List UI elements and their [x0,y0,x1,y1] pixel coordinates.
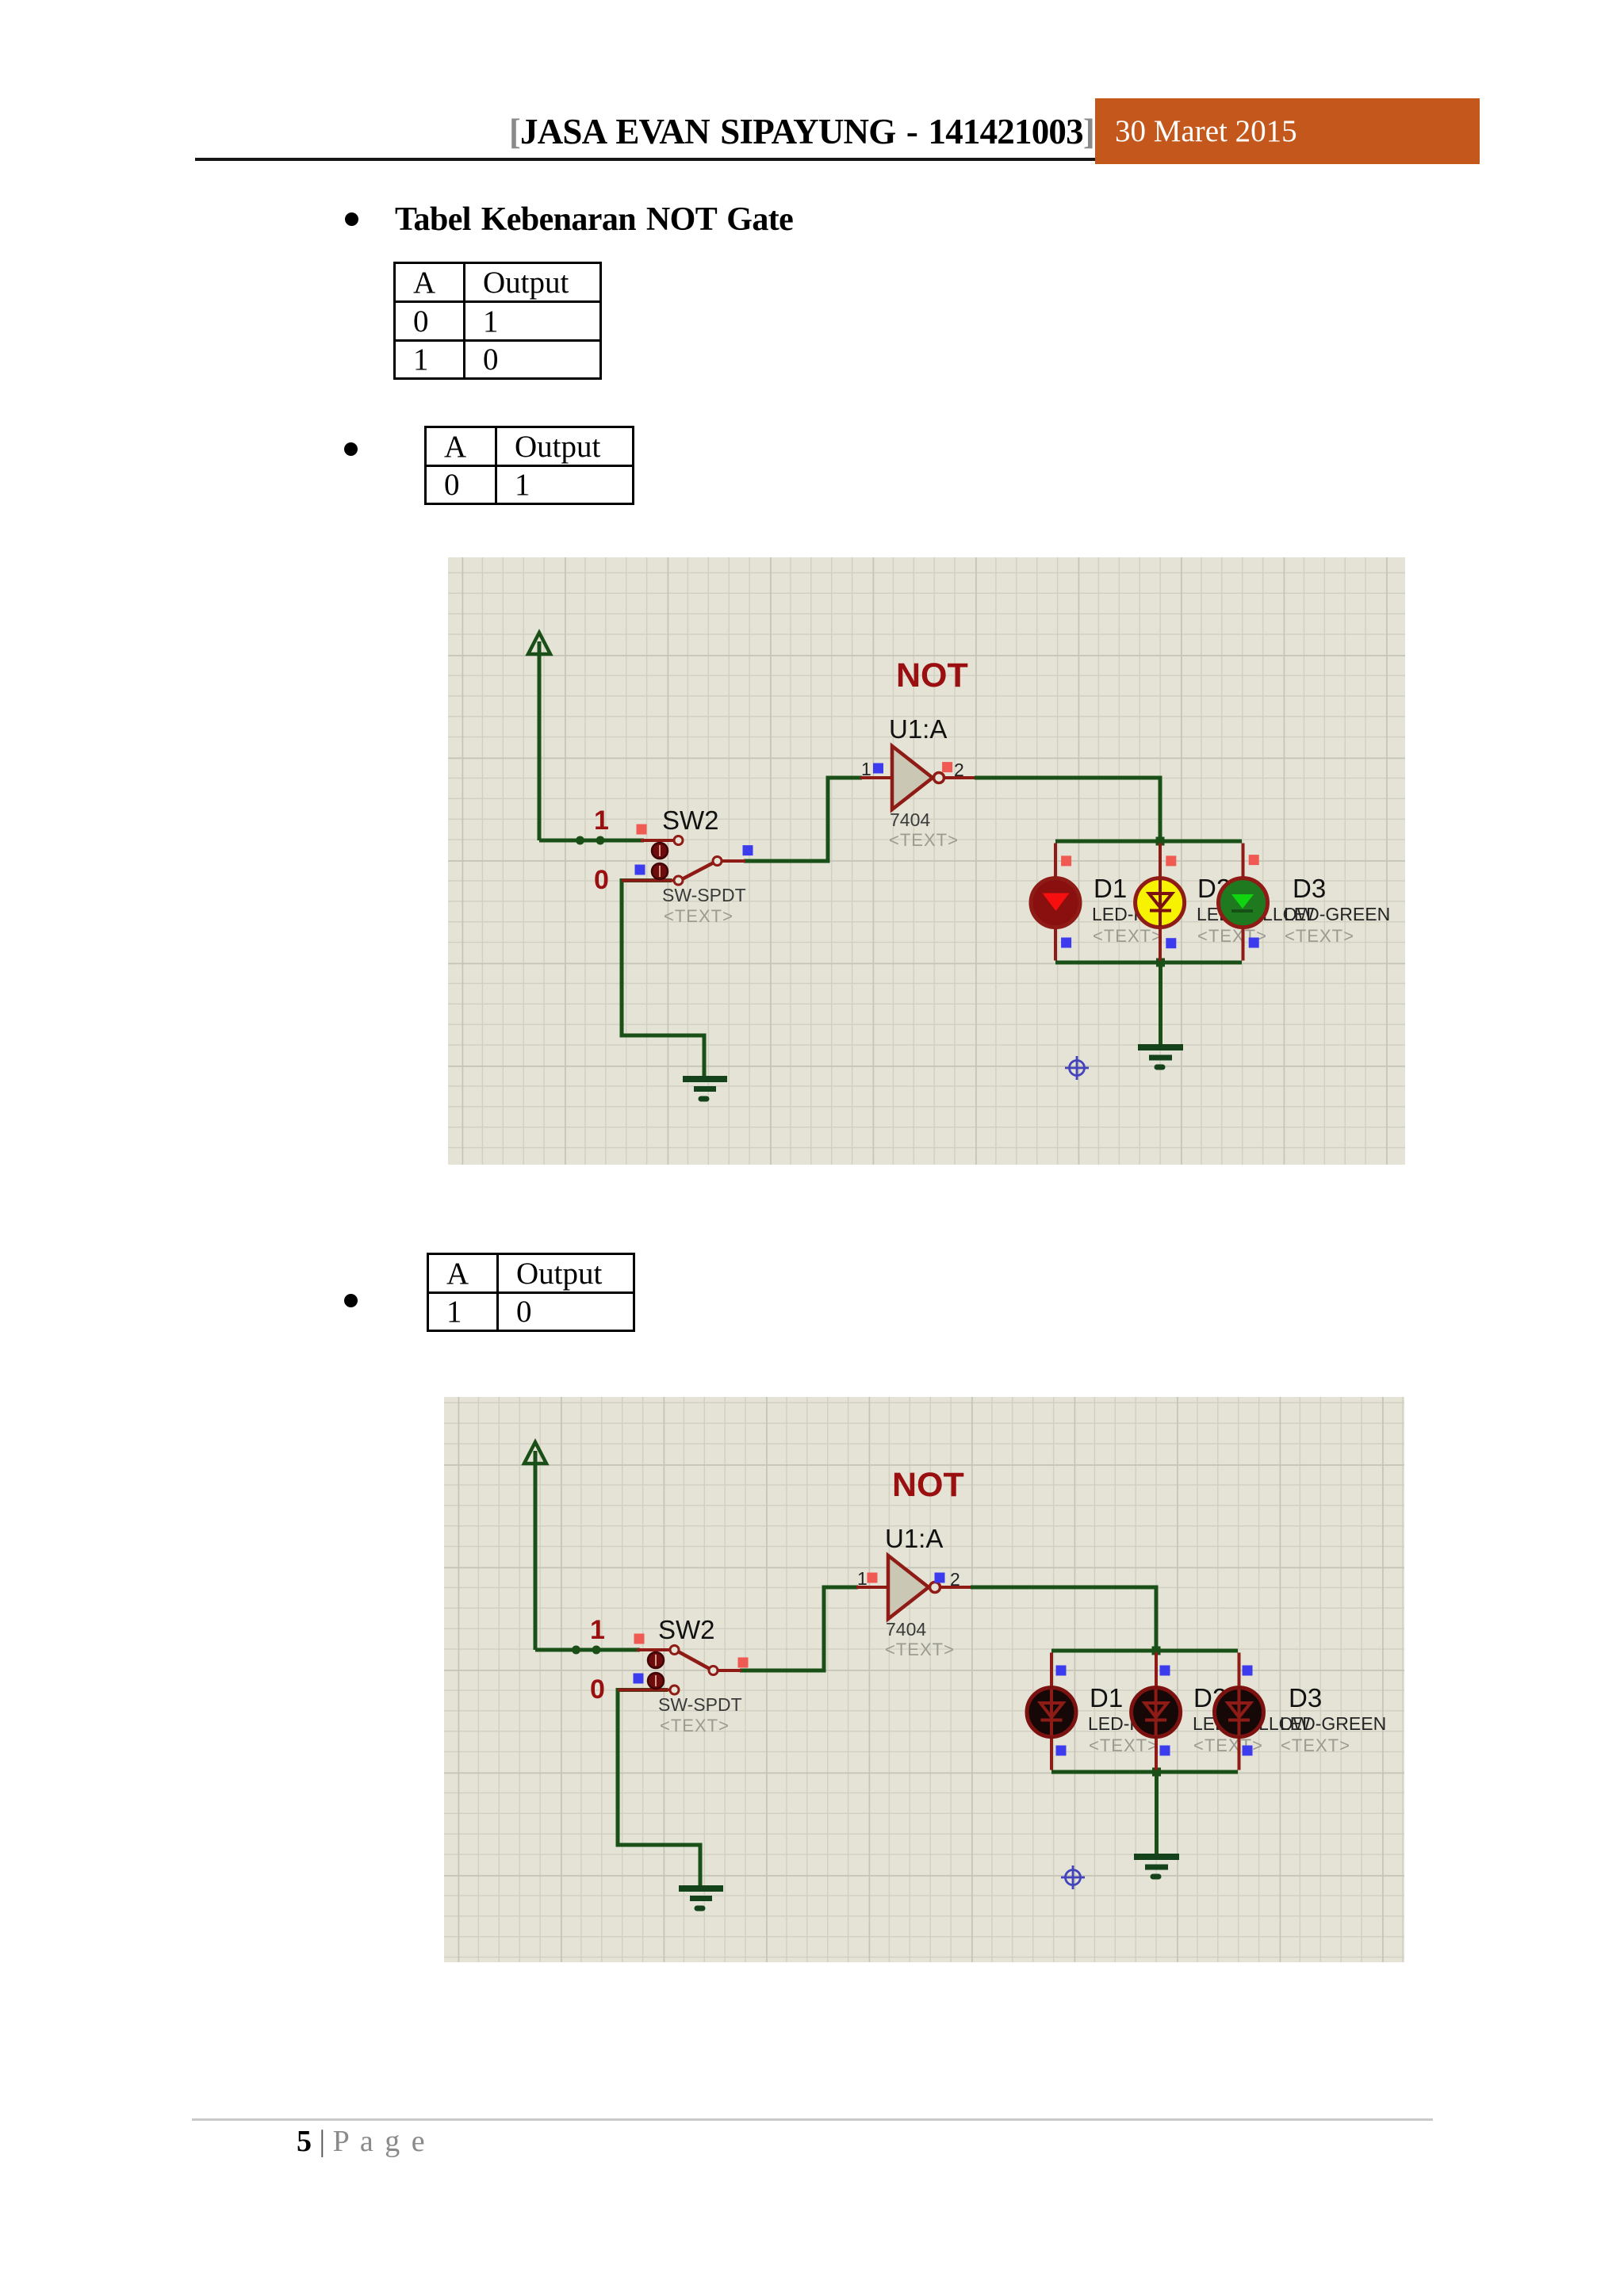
ground (LED branch) [1134,1857,1179,1877]
junction node (cathode bus / ground wire) [1156,959,1165,967]
switch SW2 bottom throw stub [618,1689,669,1692]
switch SW2 common pin [713,857,722,866]
svg-text:U1:A: U1:A [885,1524,943,1553]
handle red above D1 [1061,855,1071,866]
wire switch-to-gate [740,1587,858,1670]
svg-text:NOT: NOT [892,1466,964,1504]
wire LED cathode bus [1055,961,1242,965]
wire cathode-bus-to-ground [1155,1772,1159,1854]
title Tabel Kebenaran NOT Gate [395,201,793,239]
ground (switch branch) [683,1079,727,1099]
wire switch-to-ground [622,881,704,1078]
handle blue near SW2 left [635,865,645,875]
ground (LED branch) [1138,1047,1183,1067]
svg-text:SW2: SW2 [658,1615,715,1644]
wire cathode-bus-to-ground [1159,962,1162,1045]
svg-text:D1: D1 [1094,874,1127,903]
wire power-to-switch horizontal [535,1648,640,1652]
LED D1 (dark / off) [1027,1688,1076,1737]
switch SW2 contact body lower [648,1673,664,1689]
svg-text:<TEXT>: <TEXT> [889,830,959,850]
svg-text:0: 0 [590,1674,605,1705]
svg-text:D3: D3 [1289,1683,1322,1712]
gate U1:A triangle body [892,746,933,809]
junction node (anode bus / gate wire) [1152,1647,1161,1655]
gate U1:A input stub wire [856,1586,888,1589]
handle blue below D3 [1249,938,1259,948]
LED D2 (dark / off) [1132,1688,1181,1737]
svg-text:<TEXT>: <TEXT> [1093,926,1162,946]
handle blue below D2 [1166,938,1176,948]
handle red above D3 [1249,855,1259,865]
svg-text:<TEXT>: <TEXT> [660,1716,730,1735]
handle blue at gate pin 2 [935,1573,945,1583]
truth table 2 [424,426,634,505]
wire LED anode bus [1051,1649,1238,1653]
handle blue at gate pin 1 [873,763,883,774]
gate U1:A output stub wire [940,1586,971,1589]
handle red right of SW2 [738,1658,749,1668]
gate U1:A triangle body [888,1556,929,1619]
gate U1:A inversion bubble [930,1582,940,1593]
wire gate-to-LED-bus [971,1587,1156,1651]
svg-text:2: 2 [950,1569,960,1590]
truth table 3 [427,1253,635,1332]
CIRCUIT 1 (switch at 0, LEDs lit) [448,557,1405,1165]
svg-text:1: 1 [861,759,871,779]
svg-text:D1: D1 [1090,1683,1123,1712]
switch SW2 common pin [709,1667,718,1675]
LED D3 (green, lit) [1219,878,1268,928]
wire switch-to-ground [618,1690,700,1888]
footer rule [192,2118,1433,2121]
svg-text:SW2: SW2 [662,806,719,835]
switch SW2 bottom throw stub [622,879,673,882]
LED D1 (red, lit) [1031,878,1080,928]
gate U1:A input stub wire [860,776,892,779]
origin crosshair marker [1065,1056,1089,1080]
switch SW2 arm (up position) [678,1651,710,1669]
svg-text:2: 2 [954,760,964,780]
svg-text:SW-SPDT: SW-SPDT [662,885,746,905]
footer page number [297,2124,427,2159]
LED D2 (yellow, lit) [1136,878,1185,928]
svg-text:NOT: NOT [896,656,968,695]
svg-text:U1:A: U1:A [889,714,947,744]
switch SW2 common stub [722,859,745,863]
LED D3 pin wires [1238,1653,1241,1770]
power symbol V+ arrow [524,1442,546,1650]
handle blue below D3 [1243,1746,1253,1756]
handle blue near SW2 left [634,1674,644,1684]
header rule [195,158,1385,161]
svg-text:SW-SPDT: SW-SPDT [658,1694,742,1715]
switch SW2 arm (down position) [682,863,714,879]
junction dot A [572,1646,580,1655]
svg-text:<TEXT>: <TEXT> [1193,1735,1263,1755]
junction dot B [592,1646,601,1655]
svg-text:7404: 7404 [886,1619,926,1640]
handle blue above D3 [1243,1666,1253,1676]
svg-text:D3: D3 [1293,874,1326,903]
switch SW2 contact body upper [652,843,668,859]
origin crosshair marker [1061,1865,1085,1889]
switch SW2 top throw stub [637,1648,669,1651]
junction dot B [596,836,605,845]
switch SW2 bottom throw pin [670,1686,679,1694]
gate U1:A inversion bubble [934,773,944,783]
switch SW2 bottom throw pin [674,876,683,885]
handle red at gate pin 1 [868,1573,878,1583]
junction node (cathode bus / ground wire) [1152,1768,1161,1777]
switch SW2 common stub [718,1669,741,1672]
LED D3 pin wires [1242,844,1245,961]
handle blue above D2 [1160,1666,1170,1676]
wire LED cathode bus [1051,1770,1238,1774]
svg-text:1: 1 [857,1568,868,1589]
handle blue below D2 [1160,1746,1170,1756]
switch SW2 top throw pin [670,1646,679,1655]
svg-text:<TEXT>: <TEXT> [1089,1735,1159,1755]
handle red near SW2 top [634,1634,645,1644]
LED D2 pin wires [1159,844,1162,961]
LED D2 pin wires [1155,1653,1158,1770]
wire LED anode bus [1055,840,1242,844]
svg-text:<TEXT>: <TEXT> [1285,926,1354,946]
LED D1 pin wires [1054,844,1057,961]
svg-text:<TEXT>: <TEXT> [1281,1735,1350,1755]
truth table 1 [393,262,602,380]
handle red near SW2 top [637,825,647,835]
svg-text:1: 1 [590,1615,605,1645]
svg-text:LED-GREEN: LED-GREEN [1284,904,1390,924]
header date box [1095,98,1480,164]
handle blue below D1 [1056,1746,1067,1756]
power symbol V+ arrow [528,633,550,840]
svg-text:7404: 7404 [890,809,930,830]
CIRCUIT 2 (switch at 1, LEDs off) [444,1397,1404,1962]
switch SW2 contact body lower [652,863,668,879]
switch SW2 contact body upper [648,1652,664,1668]
svg-text:0: 0 [594,865,609,895]
switch SW2 top throw stub [641,839,673,842]
wire gate-to-LED-bus [975,778,1160,841]
bullet 2 [344,442,358,456]
handle blue above D1 [1056,1666,1067,1676]
ground (switch branch) [679,1888,723,1908]
handle red above D2 [1166,855,1176,866]
LED D3 (dark / off) [1215,1688,1264,1737]
junction dot A [576,836,584,845]
handle blue right of SW2 [743,845,753,855]
handle blue below D1 [1061,938,1071,948]
svg-text:<TEXT>: <TEXT> [885,1640,955,1659]
switch SW2 top throw pin [674,836,683,845]
bullet 3 [344,1294,358,1307]
svg-text:LED-GREEN: LED-GREEN [1280,1713,1386,1734]
bullet 1 [345,212,358,226]
svg-text:<TEXT>: <TEXT> [664,906,733,926]
junction node (anode bus / gate wire) [1156,837,1165,846]
wire switch-to-gate [744,778,862,861]
LED D1 pin wires [1050,1653,1053,1770]
svg-text:1: 1 [594,806,609,836]
wire power-to-switch horizontal [539,839,644,843]
header text [0,111,1094,152]
handle red at gate pin 2 [942,762,952,772]
gate U1:A output stub wire [944,776,975,779]
